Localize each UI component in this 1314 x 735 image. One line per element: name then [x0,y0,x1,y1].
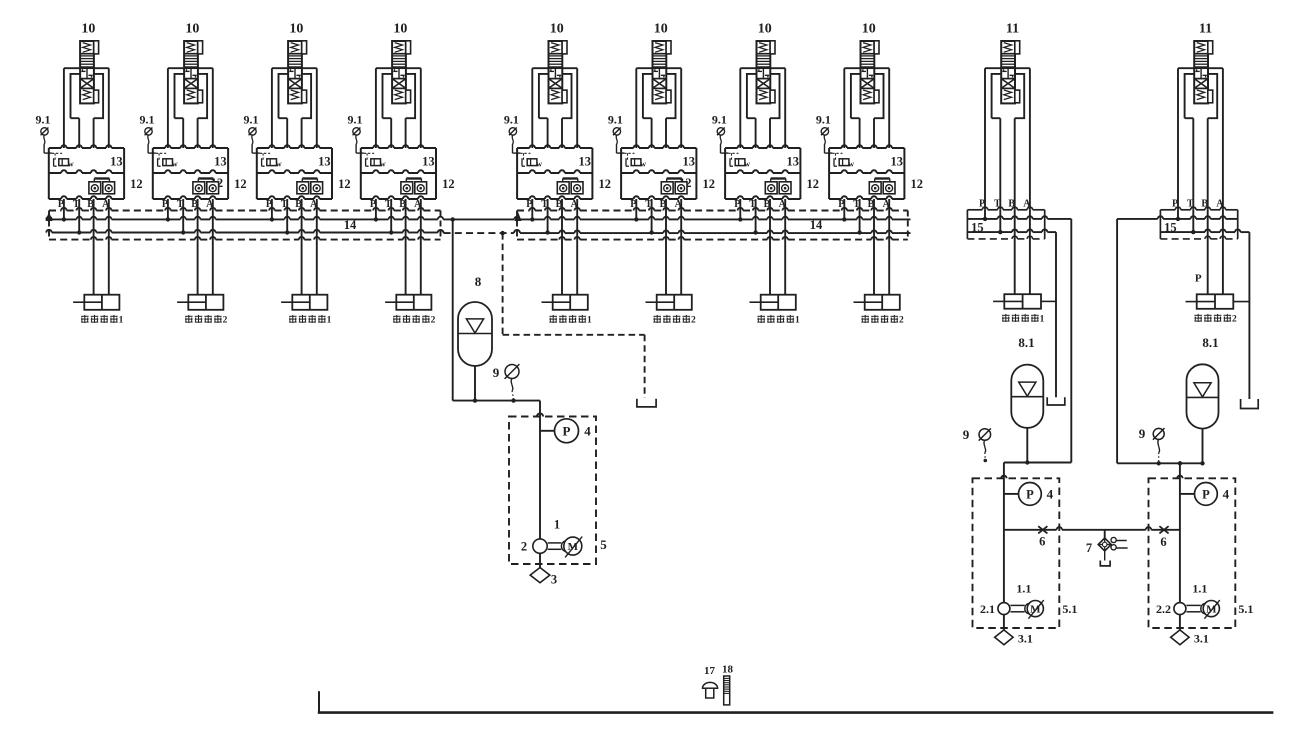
svg-text:1: 1 [327,316,332,326]
svg-text:3.1: 3.1 [1194,632,1209,646]
svg-text:12: 12 [911,177,924,191]
svg-text:2.2: 2.2 [1156,602,1171,616]
svg-text:1: 1 [554,518,560,532]
svg-text:10: 10 [81,22,95,37]
svg-text:12: 12 [338,177,351,191]
svg-text:13: 13 [787,155,800,169]
svg-text:9.1: 9.1 [608,113,623,127]
svg-text:12: 12 [599,177,612,191]
svg-text:12: 12 [234,177,247,191]
svg-text:P: P [1202,487,1210,501]
svg-text:14: 14 [810,218,823,232]
svg-text:w: w [68,160,74,169]
svg-text:18: 18 [722,664,734,676]
svg-text:1: 1 [1040,315,1045,325]
svg-text:1: 1 [795,316,800,326]
svg-text:2: 2 [431,316,436,326]
svg-text:8.1: 8.1 [1202,335,1218,350]
svg-text:10: 10 [289,22,303,37]
svg-text:B: B [1008,199,1015,210]
svg-text:8: 8 [475,274,482,289]
svg-text:w: w [640,160,646,169]
svg-text:6: 6 [1039,535,1045,549]
svg-text:12: 12 [130,177,143,191]
svg-text:17: 17 [704,665,716,677]
svg-text:13: 13 [891,155,904,169]
svg-text:12: 12 [442,177,455,191]
svg-text:13: 13 [318,155,331,169]
svg-text:13: 13 [110,155,123,169]
svg-text:1.1: 1.1 [1016,582,1031,596]
svg-text:12: 12 [703,177,716,191]
svg-text:A: A [1023,199,1031,210]
svg-text:1: 1 [587,316,592,326]
svg-text:P: P [1026,487,1034,501]
svg-text:2: 2 [1232,315,1237,325]
svg-text:13: 13 [683,155,696,169]
svg-text:11: 11 [1006,22,1019,37]
svg-text:3: 3 [551,573,557,587]
svg-text:9.1: 9.1 [36,113,51,127]
svg-text:5: 5 [600,537,607,552]
svg-text:13: 13 [579,155,592,169]
svg-text:w: w [380,160,386,169]
svg-text:9: 9 [493,365,500,380]
svg-text:4: 4 [1047,487,1054,502]
svg-text:13: 13 [422,155,435,169]
svg-text:w: w [172,160,178,169]
svg-text:12: 12 [807,177,820,191]
svg-text:11: 11 [1199,22,1212,37]
svg-text:10: 10 [550,22,564,37]
svg-text:P: P [1195,273,1202,285]
svg-text:P: P [1172,199,1178,210]
svg-text:T: T [994,199,1001,210]
svg-text:4: 4 [584,424,591,439]
svg-text:10: 10 [393,22,407,37]
svg-text:9.1: 9.1 [140,113,155,127]
svg-text:A: A [1216,199,1224,210]
svg-text:10: 10 [185,22,199,37]
svg-text:w: w [536,160,542,169]
svg-text:3.1: 3.1 [1018,632,1033,646]
svg-text:2: 2 [223,316,228,326]
svg-text:10: 10 [862,22,876,37]
svg-text:10: 10 [758,22,772,37]
svg-text:5.1: 5.1 [1238,602,1253,616]
svg-text:9.1: 9.1 [348,113,363,127]
svg-text:5.1: 5.1 [1062,602,1077,616]
svg-text:1.1: 1.1 [1192,582,1207,596]
svg-text:2: 2 [691,316,696,326]
svg-text:9: 9 [963,427,970,442]
svg-text:P: P [563,423,571,438]
svg-text:7: 7 [1086,541,1092,555]
svg-text:w: w [744,160,750,169]
svg-text:w: w [276,160,282,169]
svg-text:9.1: 9.1 [712,113,727,127]
svg-text:1: 1 [119,316,124,326]
svg-text:9: 9 [1139,426,1146,441]
svg-text:10: 10 [654,22,668,37]
svg-text:8.1: 8.1 [1018,335,1034,350]
svg-text:6: 6 [1160,535,1166,549]
svg-text:2: 2 [899,316,904,326]
svg-text:P: P [979,199,985,210]
svg-text:13: 13 [214,155,227,169]
svg-text:14: 14 [344,218,357,232]
svg-text:9.1: 9.1 [504,113,519,127]
svg-text:w: w [848,160,854,169]
svg-text:T: T [1187,199,1194,210]
svg-text:2.1: 2.1 [980,602,995,616]
svg-text:4: 4 [1223,487,1230,502]
svg-text:9.1: 9.1 [816,113,831,127]
svg-text:2: 2 [521,540,527,554]
svg-text:9.1: 9.1 [244,113,259,127]
svg-text:B: B [1201,199,1208,210]
